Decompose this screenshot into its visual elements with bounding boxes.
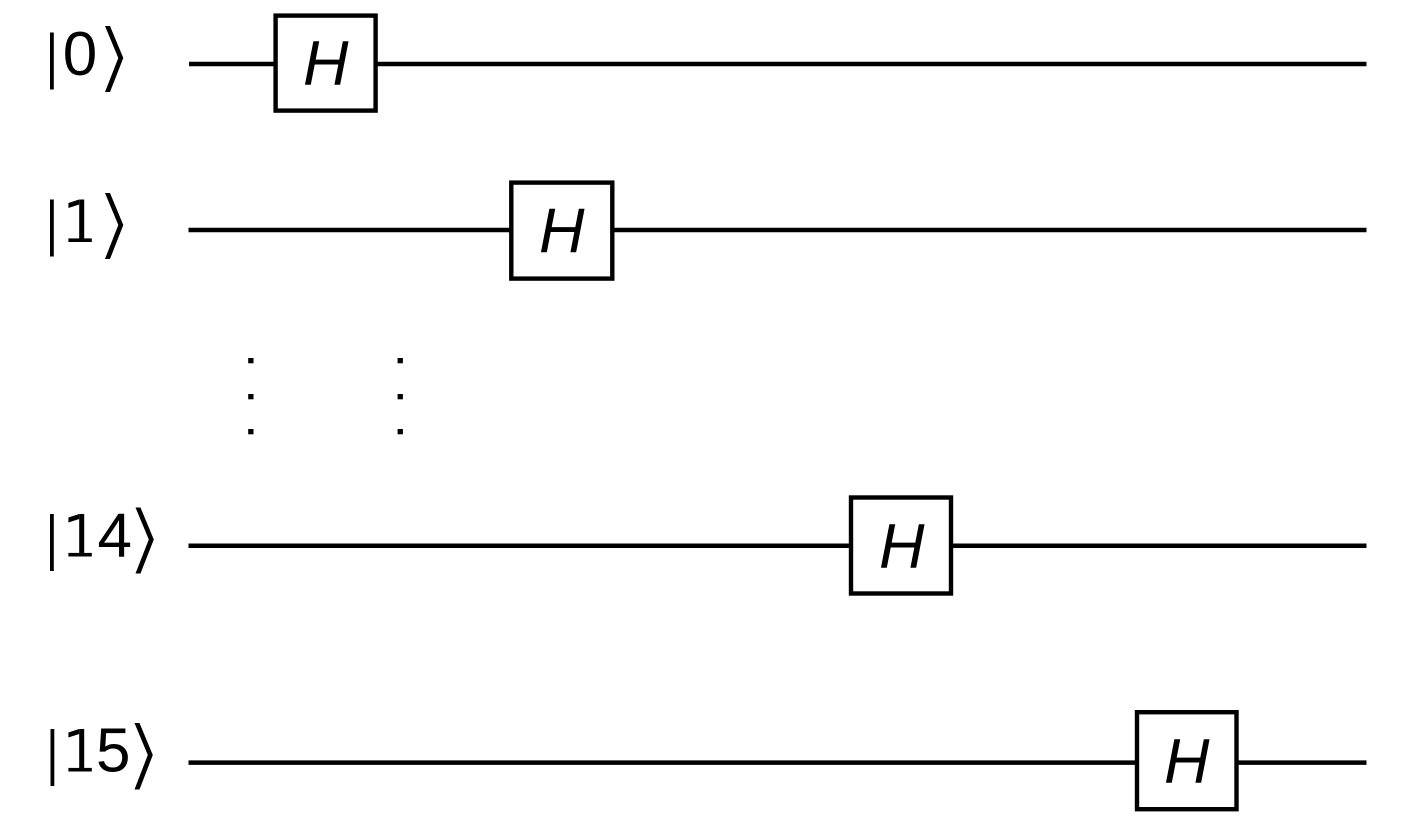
wire q15 bbox=[189, 760, 1367, 765]
H gate on q15 bbox=[1137, 712, 1237, 809]
H gate on q0 bbox=[276, 16, 376, 111]
qubit label |15> bbox=[51, 717, 153, 790]
wire q0 bbox=[189, 62, 1367, 67]
qubit label |1> bbox=[50, 193, 123, 259]
svg-text:H: H bbox=[1164, 727, 1210, 797]
svg-text:4: 4 bbox=[98, 502, 132, 571]
qubit label |0> bbox=[50, 20, 123, 92]
ellipsis dots column 2 bbox=[398, 358, 403, 434]
svg-text:H: H bbox=[303, 28, 349, 98]
svg-text:0: 0 bbox=[63, 20, 97, 89]
svg-text:5: 5 bbox=[96, 717, 130, 786]
H gate on q14 bbox=[851, 498, 951, 594]
H gate on q1 bbox=[511, 183, 612, 279]
ellipsis dots column 1 bbox=[248, 358, 253, 434]
wire q1 bbox=[189, 228, 1367, 233]
svg-text:H: H bbox=[539, 196, 585, 266]
wire q14 bbox=[189, 544, 1367, 549]
svg-text:H: H bbox=[879, 511, 925, 581]
qubit label |14> bbox=[50, 502, 154, 574]
